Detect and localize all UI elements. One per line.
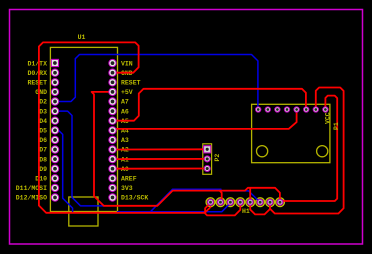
wire (blue) bottom run to H1 pad3 <box>118 203 231 212</box>
P1 module silkscreen outline <box>252 104 330 162</box>
P2 round pads <box>204 156 210 172</box>
wire (red) A5 rail to P1 pad6 <box>114 89 306 121</box>
svg-text:D0/RX: D0/RX <box>27 70 47 77</box>
wire (red) GND over top of U1 to H1 pad1 <box>39 42 211 212</box>
U1 (Arduino Nano) silkscreen outline <box>50 47 117 211</box>
svg-text:GND: GND <box>35 89 47 96</box>
svg-text:3V3: 3V3 <box>121 185 133 192</box>
U1 left pads <box>51 69 58 201</box>
wire (red) A2 to P2 pad1 <box>114 148 206 150</box>
svg-text:D2: D2 <box>39 99 47 106</box>
wire (red) H1 bottom loop pad1 to pad4 <box>205 203 240 216</box>
P2 pin1 square pad <box>204 146 211 153</box>
svg-text:VCC: VCC <box>325 112 332 124</box>
wire (red) H1 bottom loop pad5 to pad7 <box>250 203 270 215</box>
wire (blue) D4 stub down <box>59 130 73 211</box>
svg-text:D3: D3 <box>39 108 47 115</box>
wire (red) junction down to H1 pad5 <box>249 188 251 202</box>
wire (blue) along H1 top to pad6 <box>221 191 260 202</box>
wire (red) A0 to P2 pad3 <box>114 168 206 170</box>
wire (red) H1 top chain pad2 to pad8 <box>220 188 280 202</box>
U1 USB connector silkscreen box <box>69 197 98 226</box>
H1 header silkscreen scallops <box>206 198 284 207</box>
svg-text:D7: D7 <box>39 147 47 154</box>
wire (red) A1 to P2 pad2 <box>114 158 206 160</box>
wire (red) P1 pad8 inner hook to H1 pad8 <box>281 96 337 201</box>
svg-text:D12/MISO: D12/MISO <box>16 195 47 202</box>
wire (blue) D3 down left of USB box <box>57 111 104 206</box>
svg-text:RESET: RESET <box>27 80 47 87</box>
wire (red) A4 to P1 pad5 <box>114 110 297 129</box>
svg-text:U1: U1 <box>78 34 86 41</box>
P1 mounting hole circle right <box>317 146 328 157</box>
svg-text:A3: A3 <box>121 137 129 144</box>
svg-text:D9: D9 <box>39 166 47 173</box>
U1 right pin name labels <box>121 60 148 201</box>
wire (blue) D2 to P1 pad1 <box>57 55 258 109</box>
svg-text:+5V: +5V <box>121 89 133 96</box>
U1 left pin name labels <box>16 60 47 201</box>
svg-text:D1/TX: D1/TX <box>27 60 47 67</box>
svg-text:D13/SCK: D13/SCK <box>121 195 148 202</box>
svg-text:RESET: RESET <box>121 80 141 87</box>
svg-text:D10: D10 <box>35 176 47 183</box>
wire (red) P1 pad7 outer hook to H1 pad7 <box>270 88 344 214</box>
svg-text:A7: A7 <box>121 99 129 106</box>
svg-text:VIN: VIN <box>121 60 133 67</box>
svg-text:A6: A6 <box>121 108 129 115</box>
svg-text:D11/MOSI: D11/MOSI <box>16 185 47 192</box>
svg-text:H1: H1 <box>242 208 250 215</box>
U1 right pads <box>109 59 116 201</box>
svg-text:P1: P1 <box>333 122 340 130</box>
svg-text:D5: D5 <box>39 128 47 135</box>
U1 pin1 square pad <box>51 59 58 66</box>
P2 connector silkscreen outline <box>203 144 212 175</box>
svg-text:D4: D4 <box>39 118 47 125</box>
wire (red) +5V down through U1 to H1 pad2 <box>92 92 222 206</box>
svg-text:D8: D8 <box>39 156 47 163</box>
P1 pads <box>256 107 328 112</box>
H1 pads <box>208 199 283 205</box>
svg-text:P2: P2 <box>214 154 221 162</box>
wire (blue) rising diagonal to H1 <box>151 189 222 212</box>
P1 mounting hole circle left <box>257 146 268 157</box>
svg-text:AREF: AREF <box>121 176 137 183</box>
svg-text:D6: D6 <box>39 137 47 144</box>
